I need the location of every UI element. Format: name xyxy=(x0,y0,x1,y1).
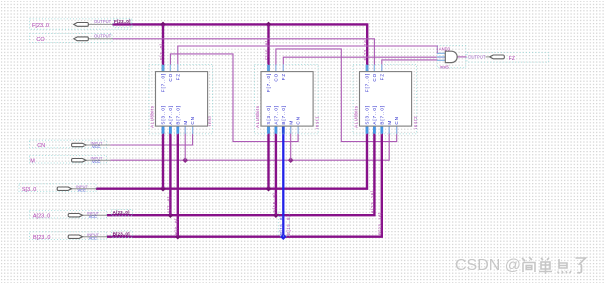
pin stubs CO FZ top xyxy=(170,65,177,72)
selection box xyxy=(30,140,107,148)
svg-text:FZ: FZ xyxy=(379,73,384,80)
svg-text:OUTPUT: OUTPUT xyxy=(94,19,112,24)
svg-text:A[7..0]: A[7..0] xyxy=(372,105,377,125)
input pin M xyxy=(30,155,111,164)
selection box xyxy=(30,210,107,218)
pin stub F bus top xyxy=(162,65,165,72)
svg-text:CN: CN xyxy=(190,116,195,124)
pin stubs CO FZ top xyxy=(374,65,381,72)
svg-text:F[23..0]: F[23..0] xyxy=(114,19,131,24)
selection box xyxy=(30,19,131,29)
watermark CSDN xyxy=(455,257,522,275)
net label A[15..8] riser chip2 xyxy=(272,193,277,213)
junction B / chip2 selected blue xyxy=(280,233,287,240)
output pin F[23..0] xyxy=(30,19,132,30)
svg-text:ALU8bits: ALU8bits xyxy=(353,105,358,127)
net label F[15..8] riser chip2 xyxy=(265,40,270,60)
selection box xyxy=(30,155,107,163)
pin stubs bus bottom xyxy=(367,126,382,134)
svg-text:F[23..0: F[23..0 xyxy=(32,23,49,29)
selection box xyxy=(19,184,96,192)
svg-text:ALU8bits: ALU8bits xyxy=(255,105,260,127)
svg-text:B[7..0]: B[7..0] xyxy=(175,105,180,125)
svg-text:A[7..0]: A[7..0] xyxy=(167,196,172,213)
net label B[15..8] riser chip2 xyxy=(286,215,291,235)
svg-text:A[23..0: A[23..0 xyxy=(33,213,50,219)
ALU chip2 ALU8bits inst1 xyxy=(255,65,320,134)
input pin S[3..0] xyxy=(19,184,96,193)
svg-text:A[7..0]: A[7..0] xyxy=(168,105,173,125)
junction A / chip1 xyxy=(168,212,174,218)
svg-text:F[7..0]: F[7..0] xyxy=(159,43,164,60)
output pin FZ xyxy=(467,53,549,63)
input pin B[23..0] xyxy=(30,231,133,241)
svg-text:F[15..8]: F[15..8] xyxy=(265,40,270,60)
svg-text:S[3..0]: S[3..0] xyxy=(266,105,271,125)
input pin A[23..0] xyxy=(30,209,133,219)
wire F riser chip1 xyxy=(162,24,164,71)
svg-text:A[15..8]: A[15..8] xyxy=(272,193,277,213)
svg-text:CO: CO xyxy=(274,73,279,82)
wire CN input net xyxy=(110,126,192,145)
svg-text:ALU8bits: ALU8bits xyxy=(149,105,154,127)
chip body xyxy=(156,72,208,127)
svg-text:VCC: VCC xyxy=(78,188,87,193)
svg-text:S[3..0]: S[3..0] xyxy=(161,105,166,125)
svg-text:inst: inst xyxy=(207,116,212,126)
svg-text:B[15..8]: B[15..8] xyxy=(286,215,291,235)
selection box xyxy=(353,65,417,134)
junction A / chip2 xyxy=(273,212,279,218)
pin stub F bus top xyxy=(267,65,270,72)
output pin CO xyxy=(29,34,112,43)
input pin CN xyxy=(30,140,111,149)
svg-text:S[3..0: S[3..0 xyxy=(22,187,36,193)
svg-text:FZ: FZ xyxy=(509,56,515,62)
svg-text:A[7..0]: A[7..0] xyxy=(274,105,279,125)
svg-text:inst2: inst2 xyxy=(413,116,418,129)
pin stubs M CN bottom xyxy=(291,126,298,134)
selection box xyxy=(149,65,213,134)
net label A[23..16] riser chip3 xyxy=(370,190,375,213)
svg-text:CO: CO xyxy=(36,37,45,43)
pin stub B selected xyxy=(282,126,285,134)
wire B riser chip2 selected blue xyxy=(282,126,284,237)
svg-text:VCC: VCC xyxy=(89,236,98,241)
wire M riser chip1 xyxy=(184,126,186,160)
svg-text:inst5: inst5 xyxy=(440,65,450,70)
svg-text:F[7..0]: F[7..0] xyxy=(266,73,271,92)
wire M riser chip2 xyxy=(290,126,292,160)
pin stubs M CN bottom xyxy=(389,126,396,134)
svg-text:FZ: FZ xyxy=(175,73,180,80)
wire S[3..0] bus xyxy=(96,126,367,189)
wire CO output net xyxy=(113,39,375,72)
svg-text:CO: CO xyxy=(372,73,377,82)
svg-text:OUTPUT: OUTPUT xyxy=(94,34,112,39)
pin stubs bus bottom xyxy=(162,126,165,134)
net label F[23..16] riser chip3 xyxy=(363,38,368,61)
wire S riser chip2 xyxy=(267,126,269,189)
wire F riser chip2 xyxy=(267,24,269,71)
pin stubs M CN bottom xyxy=(185,126,192,134)
junction F bus / chip1 F riser xyxy=(160,22,166,28)
chip body xyxy=(261,72,313,127)
wire S riser chip1 xyxy=(162,126,164,189)
wire carry CO chip2 to CN chip3 xyxy=(276,49,397,142)
AND gate AND3 inst5 xyxy=(437,45,466,69)
selection box around B riser labels xyxy=(278,212,289,236)
svg-text:CSDN @: CSDN @ xyxy=(455,257,521,274)
selection box xyxy=(30,232,107,240)
selection box xyxy=(255,65,319,134)
wire B riser chip1 xyxy=(177,126,179,237)
svg-text:B[7..0]: B[7..0] xyxy=(281,105,286,125)
svg-text:CN: CN xyxy=(296,116,301,124)
ALU chip1 ALU8bits inst xyxy=(149,65,213,134)
junction B / chip1 xyxy=(175,234,181,240)
chip body xyxy=(360,72,412,127)
watermark chinese glyphs xyxy=(522,257,586,274)
svg-text:B[23..0: B[23..0 xyxy=(33,235,50,241)
wire carry CO chip1 to CN chip2 xyxy=(170,54,298,142)
junction M / chip1 M riser xyxy=(182,157,188,163)
wire A riser chip1 xyxy=(169,126,171,215)
wire A riser chip2 xyxy=(275,126,277,215)
svg-text:B[23..0]: B[23..0] xyxy=(113,232,130,237)
svg-text:A[23..0]: A[23..0] xyxy=(113,210,130,215)
wire A[23..0] bus xyxy=(107,126,375,215)
pin stubs bus bottom xyxy=(170,126,177,134)
svg-text:CO: CO xyxy=(168,73,173,82)
junction S / chip1 xyxy=(160,186,166,192)
svg-text:M: M xyxy=(30,158,35,164)
svg-text:B[7..0]: B[7..0] xyxy=(174,218,179,235)
watermark chinese glyphs white emboss xyxy=(523,258,587,275)
svg-text:inst1: inst1 xyxy=(315,116,320,129)
svg-text:OUTPUT: OUTPUT xyxy=(468,54,486,59)
junction F bus / chip2 F riser xyxy=(266,22,272,28)
svg-text:M: M xyxy=(288,120,293,125)
svg-text:A[23..16]: A[23..16] xyxy=(370,190,375,213)
pin stub F bus top xyxy=(366,65,369,72)
svg-text:VCC: VCC xyxy=(92,159,101,164)
net label B[15..8] selected blue xyxy=(279,215,284,235)
svg-text:CN: CN xyxy=(37,143,45,149)
svg-text:VCC: VCC xyxy=(89,214,98,219)
svg-text:B[15..8]: B[15..8] xyxy=(279,215,284,235)
svg-text:F[7..0]: F[7..0] xyxy=(365,73,370,92)
net label B[7..0] riser chip1 xyxy=(174,218,179,235)
net label B[23..16] riser chip3 xyxy=(378,212,383,235)
wire FZ chip3 to AND input 3 xyxy=(382,60,446,72)
pin stubs CO FZ top xyxy=(276,65,283,72)
wire FZ chip2 to AND input 2 xyxy=(283,57,445,71)
junction M / chip2 M riser xyxy=(288,157,294,163)
svg-text:M: M xyxy=(387,120,392,125)
net label A[7..0] riser chip1 xyxy=(167,196,172,213)
junction S / chip2 xyxy=(266,186,272,192)
svg-text:VCC: VCC xyxy=(92,144,101,149)
wire FZ chip1 to AND input 1 xyxy=(178,46,446,72)
ALU chip3 ALU8bits inst2 xyxy=(353,65,418,134)
selection box xyxy=(437,45,466,67)
svg-text:F[7..0]: F[7..0] xyxy=(161,73,166,92)
wire B[23..0] bus xyxy=(107,126,382,237)
selection box xyxy=(467,53,549,63)
svg-text:AND3: AND3 xyxy=(439,46,451,51)
svg-text:B[23..16]: B[23..16] xyxy=(378,212,383,235)
svg-text:B[7..0]: B[7..0] xyxy=(379,105,384,125)
net label F[7..0] riser chip1 xyxy=(159,43,164,60)
wire F[23..0] bus top xyxy=(113,24,368,71)
pin stubs bus bottom xyxy=(269,126,276,134)
svg-text:FZ: FZ xyxy=(281,73,286,80)
svg-text:CN: CN xyxy=(394,116,399,124)
wire M input net xyxy=(110,126,389,160)
svg-text:M: M xyxy=(183,120,188,125)
selection box xyxy=(29,34,112,43)
svg-text:S[3..0]: S[3..0] xyxy=(365,105,370,125)
